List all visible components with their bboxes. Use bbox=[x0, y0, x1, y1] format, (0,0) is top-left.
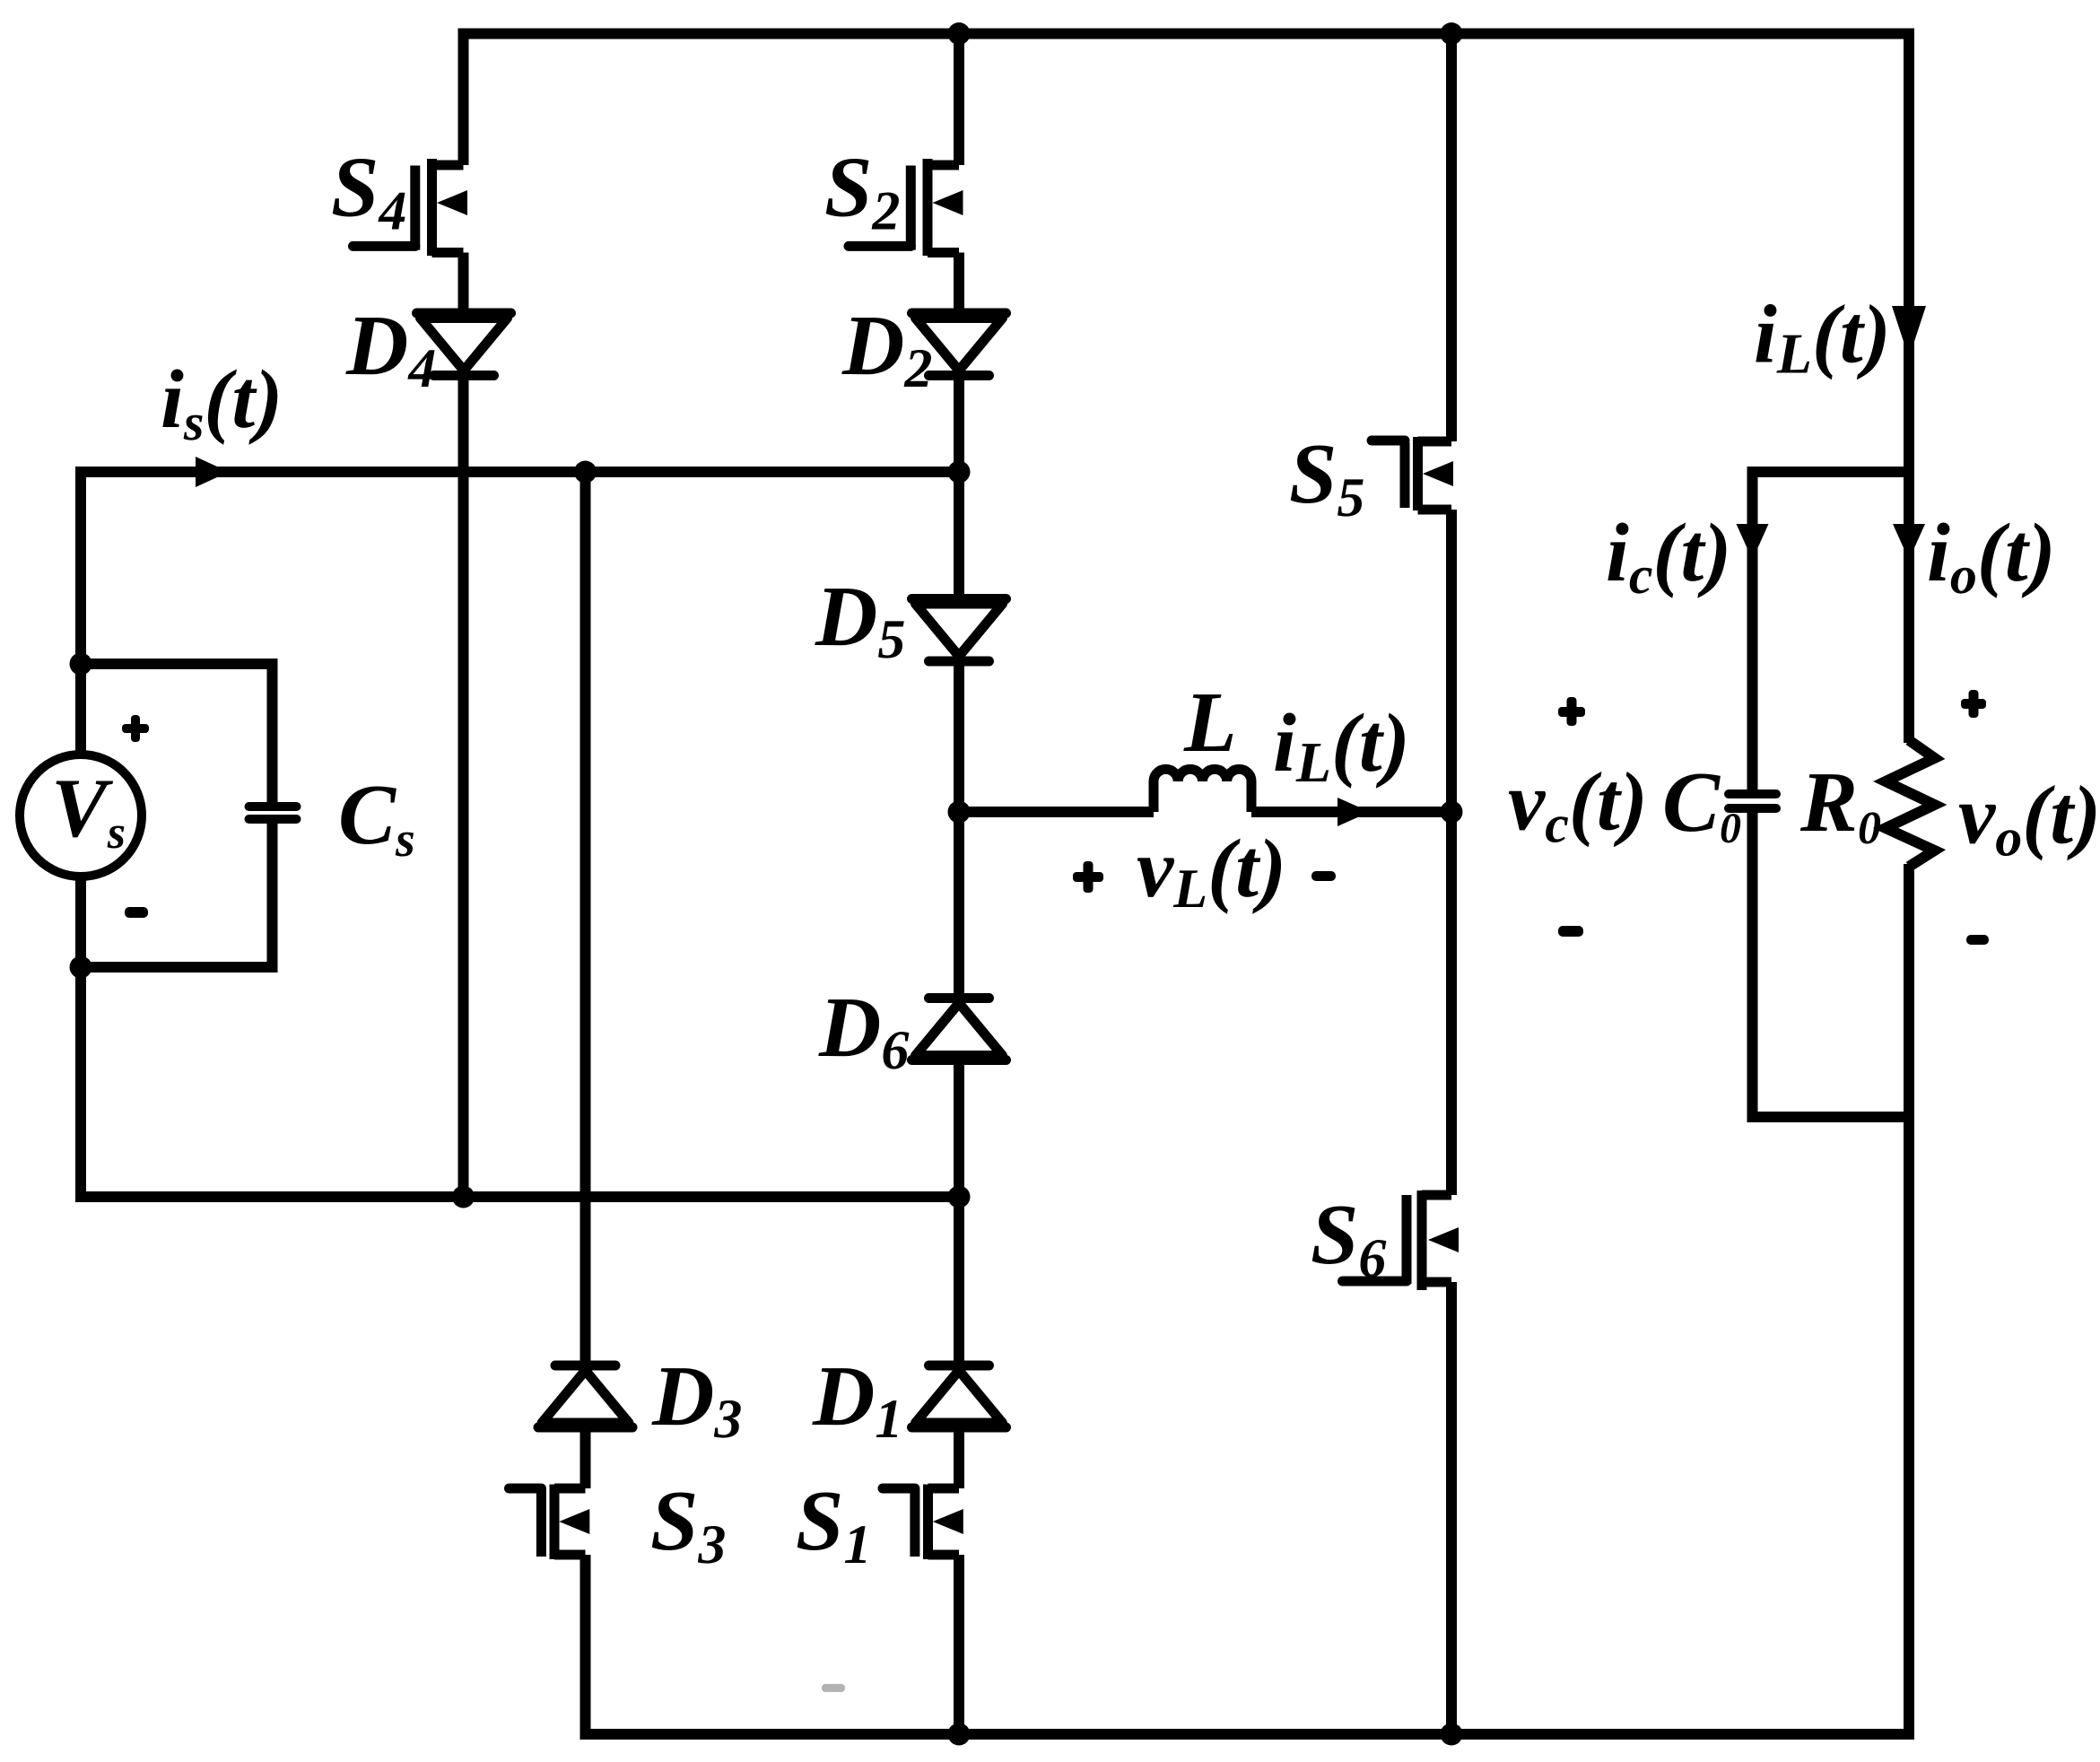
diode D1 bbox=[912, 1365, 1006, 1427]
node top S5 bbox=[1441, 22, 1463, 45]
wire L to S5 branch bbox=[1251, 807, 1451, 817]
svg-text:ic(t): ic(t) bbox=[1606, 507, 1731, 605]
voltage source Vs bbox=[20, 755, 142, 877]
svg-text:L: L bbox=[1183, 674, 1237, 770]
node top S2 bbox=[948, 22, 971, 45]
diode D3 bbox=[538, 1365, 632, 1427]
label vo plus bbox=[1961, 690, 1986, 718]
node mid D6 bbox=[948, 1186, 971, 1208]
wire S4 drain bbox=[458, 29, 469, 166]
wire Co bottom lead bbox=[1747, 813, 1758, 1117]
svg-text:iL(t): iL(t) bbox=[1273, 697, 1410, 794]
wire S5 down bbox=[1446, 510, 1457, 1195]
transistor S2 bbox=[849, 159, 963, 256]
arrow ic bbox=[1737, 524, 1769, 560]
arrow io bbox=[1893, 524, 1925, 560]
node mid D4 bbox=[452, 1186, 475, 1208]
transistor S5 bbox=[1372, 437, 1453, 510]
label vL minus bbox=[1311, 871, 1336, 881]
wire S3 down bbox=[580, 1555, 591, 1740]
node Vs top bbox=[70, 653, 92, 676]
diode D6 bbox=[912, 999, 1006, 1060]
wire Cs top lead bbox=[267, 664, 278, 802]
wire D3-S3 bbox=[580, 1427, 591, 1488]
label Vs plus bbox=[122, 715, 149, 742]
transistor S3 bbox=[510, 1485, 590, 1560]
label vc minus bbox=[1558, 926, 1583, 937]
wire right rail lower bbox=[1904, 864, 1914, 1740]
node Vs bottom bbox=[70, 956, 92, 979]
wire S2-D2 bbox=[954, 253, 964, 314]
wire Cs bottom lead bbox=[267, 824, 278, 967]
gray artifact dash bbox=[822, 1684, 845, 1692]
wire S2 drain bbox=[954, 34, 964, 166]
node is D5 bbox=[948, 461, 971, 484]
wire D5-D6 bbox=[954, 661, 964, 999]
node vc tap bbox=[1441, 801, 1463, 824]
wire Co bottom link bbox=[1747, 1112, 1915, 1122]
wire D5 top bbox=[954, 472, 964, 599]
wire S1 down bbox=[954, 1555, 964, 1734]
svg-text:vL(t): vL(t) bbox=[1137, 823, 1286, 920]
wire D6 down bbox=[954, 1060, 964, 1198]
resistor R0 zigzag bbox=[1886, 740, 1935, 867]
wire Cs top link bbox=[81, 659, 278, 669]
transistor S4 bbox=[353, 159, 468, 256]
arrow iL right rail bbox=[1892, 306, 1926, 358]
wire L tap left bbox=[959, 807, 1154, 817]
wire mid horizontal bbox=[75, 1191, 959, 1202]
svg-text:io(t): io(t) bbox=[1927, 507, 2056, 605]
node is S3 bbox=[574, 461, 597, 484]
svg-text:iL(t): iL(t) bbox=[1754, 289, 1891, 386]
wire S5 drain bbox=[1446, 34, 1457, 442]
transistor S6 bbox=[1343, 1191, 1460, 1290]
label vc plus bbox=[1558, 697, 1585, 726]
wire D2 down bbox=[954, 376, 964, 473]
label Vs minus bbox=[125, 907, 148, 918]
diode D5 bbox=[912, 599, 1006, 662]
svg-text:vc(t): vc(t) bbox=[1508, 756, 1648, 854]
label vL plus bbox=[1073, 861, 1103, 893]
wire bottom bus bbox=[586, 1729, 1915, 1740]
wire right rail upper bbox=[1904, 29, 1914, 744]
node bottom S6 bbox=[1441, 1723, 1463, 1746]
wire top bus bbox=[458, 29, 1915, 39]
diode D2 bbox=[912, 313, 1006, 376]
arrow is bbox=[196, 457, 229, 487]
wire D1-S1 bbox=[954, 1427, 964, 1488]
wire S6 down bbox=[1446, 1282, 1457, 1734]
svg-text:vo(t): vo(t) bbox=[1958, 770, 2100, 868]
wire left rail lower bbox=[75, 877, 86, 1202]
node bottom S1 bbox=[948, 1723, 971, 1746]
wire left rail upper bbox=[75, 467, 86, 755]
label vo minus bbox=[1966, 935, 1989, 945]
svg-text:is(t): is(t) bbox=[161, 353, 283, 451]
wire D4 down bbox=[458, 376, 469, 1198]
wire S3 branch top bbox=[580, 472, 591, 1365]
wire Co top link bbox=[1747, 467, 1910, 477]
wire is horizontal bbox=[81, 467, 959, 477]
wire Cs bottom link bbox=[81, 962, 278, 973]
transistor S1 bbox=[883, 1485, 963, 1560]
wire S4-D4 bbox=[458, 253, 469, 314]
wire Co top lead bbox=[1747, 467, 1758, 789]
capacitor C0 bbox=[1729, 794, 1776, 808]
capacitor Cs bbox=[249, 807, 297, 819]
diode D4 bbox=[417, 313, 511, 376]
node L tap bbox=[948, 801, 971, 824]
wire D1 top bbox=[954, 1197, 964, 1365]
arrow iL on L wire bbox=[1338, 798, 1370, 826]
inductor L bbox=[1154, 769, 1251, 812]
